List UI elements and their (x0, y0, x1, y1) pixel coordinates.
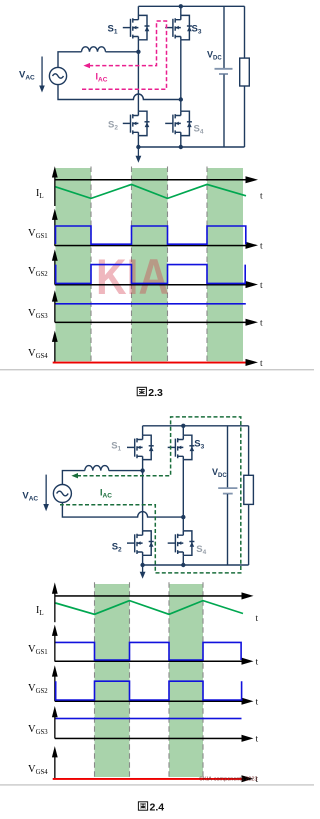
row VGS1 : time axis (55, 245, 246, 247)
wire VAC top to inductor (58, 52, 82, 68)
waveform VGS3 constant high (blue) (56, 718, 242, 720)
svg-text:t: t (260, 359, 263, 369)
wire right leg S3 source to S4 drain (180, 40, 182, 111)
svg-text:t: t (256, 614, 259, 624)
battery VDC (227, 426, 229, 488)
battery VDC (223, 6, 225, 68)
waveform VGS3 constant high (blue) (56, 303, 246, 305)
svg-text:t: t (256, 698, 259, 708)
node A junction dot (136, 50, 140, 54)
shaded conduction bands (95, 584, 204, 777)
ac source VAC circle (53, 485, 71, 503)
row VGS1 : vertical axis (52, 625, 58, 662)
arrow VAC polarity (39, 57, 45, 93)
wire VAC top to inductor (62, 471, 84, 485)
svg-text:t: t (256, 658, 259, 668)
transistor S1 (127, 435, 154, 459)
row IL : time axis (55, 179, 246, 181)
waveform IL inductor current (green triangle) (56, 184, 247, 198)
row VGS3 : vertical axis (52, 290, 58, 322)
resistor load (248, 426, 250, 565)
shaded conduction bands (56, 168, 244, 361)
transistor S2 (127, 531, 154, 555)
waveform IL inductor current (green triangle) (56, 601, 244, 615)
node bottom rail dots (136, 145, 140, 149)
row IL : time axis (55, 595, 244, 597)
row VGS2 : vertical axis (52, 249, 58, 284)
inductor L (82, 47, 106, 52)
row VGS4 : vertical axis (52, 331, 58, 363)
arrowhead IAC (71, 473, 78, 478)
separator rule under figure 2.4 (0, 784, 314, 785)
wire VAC bottom with hop over left leg (62, 503, 183, 517)
arrowhead IAC (83, 63, 90, 68)
row IL : vertical axis (52, 166, 58, 206)
arrow to waveform (bridge bottom) (142, 565, 143, 575)
separator rule under figure 2.3 (0, 369, 314, 370)
svg-text:KIA: KIA (96, 249, 169, 305)
transistor S3 (165, 15, 192, 39)
waveform VGS4 constant low (red line on axis) (53, 362, 246, 364)
svg-text:2.3: 2.3 (148, 387, 163, 399)
svg-text:t: t (260, 319, 263, 329)
waveform VGS4 constant low (red line on axis) (53, 778, 244, 780)
row VGS3 : time axis (55, 738, 244, 740)
row VGS2 : time axis (55, 284, 246, 286)
arrow VAC polarity (43, 475, 49, 512)
row VGS3 : time axis (55, 322, 246, 324)
row VGS4 : vertical axis (52, 746, 58, 779)
waveform VGS1 gate drive (blue) (56, 642, 242, 660)
ac source VAC circle (49, 67, 66, 84)
wire inductor to bridge midpoint A (109, 470, 143, 472)
dashed switching boundary lines (91, 167, 207, 363)
svg-text:t: t (256, 735, 259, 745)
wire left leg S2 source to bottom rail (142, 555, 144, 565)
transistor S4 (165, 111, 192, 135)
row VGS1 : vertical axis (52, 209, 58, 246)
wire left leg S1 source to S2 drain (137, 40, 139, 111)
wire right leg S3 source to S4 drain (182, 460, 184, 531)
node top rail junction dot (179, 4, 183, 8)
wire top rail (143, 425, 249, 427)
wire left leg S1 source to S2 drain (142, 460, 144, 531)
waveform VGS2 gate drive (blue) (56, 265, 246, 284)
inductor L (85, 466, 109, 471)
svg-text:t: t (260, 192, 263, 202)
waveform VGS1 gate drive (blue) (56, 226, 246, 244)
wire VAC bottom with hop over left leg (58, 85, 181, 100)
wire top rail (138, 5, 244, 7)
wire bottom rail (143, 564, 249, 566)
node B junction dot (181, 515, 185, 519)
transistor S3 (168, 435, 195, 459)
current path IAC (dashed magenta) (82, 21, 167, 89)
svg-text:t: t (260, 281, 263, 291)
waveform VGS2 gate drive (blue) (56, 681, 242, 700)
wire right leg S3 drain (182, 426, 184, 435)
row VGS2 : vertical axis (52, 665, 58, 701)
resistor load (244, 6, 246, 147)
transistor S2 (123, 111, 150, 135)
svg-text:t: t (260, 242, 263, 252)
transistor S4 (168, 531, 195, 555)
wire right leg S3 drain (180, 6, 182, 15)
svg-text:2.4: 2.4 (150, 802, 165, 814)
caption 图2.4 (138, 802, 164, 814)
wire left leg S2 source to bottom rail (137, 136, 139, 147)
wire right leg S4 source to bottom rail (182, 555, 184, 565)
node top rail junction dot (181, 424, 185, 428)
dashed switching boundary lines (95, 582, 204, 778)
arrow to waveform (bridge bottom) (138, 147, 139, 158)
row VGS3 : vertical axis (52, 706, 58, 738)
current path IAC (dashed green) (60, 417, 241, 573)
node bottom rail dots (140, 563, 144, 567)
wire bottom rail (138, 146, 244, 148)
svg-text:©KIA-components 2023: ©KIA-components 2023 (199, 776, 257, 783)
wire left leg S1 drain (142, 426, 144, 435)
wire right leg S4 source to bottom rail (180, 136, 182, 147)
row VGS2 : time axis (55, 701, 244, 703)
row VGS1 : time axis (55, 661, 244, 663)
transistor S1 (123, 15, 150, 39)
caption 图2.3 (137, 387, 163, 399)
wire inductor to bridge midpoint A (106, 51, 139, 53)
row IL : vertical axis (52, 582, 58, 622)
node A junction dot (140, 468, 144, 472)
wire left leg S1 drain (137, 6, 139, 15)
node B junction dot (179, 97, 183, 101)
